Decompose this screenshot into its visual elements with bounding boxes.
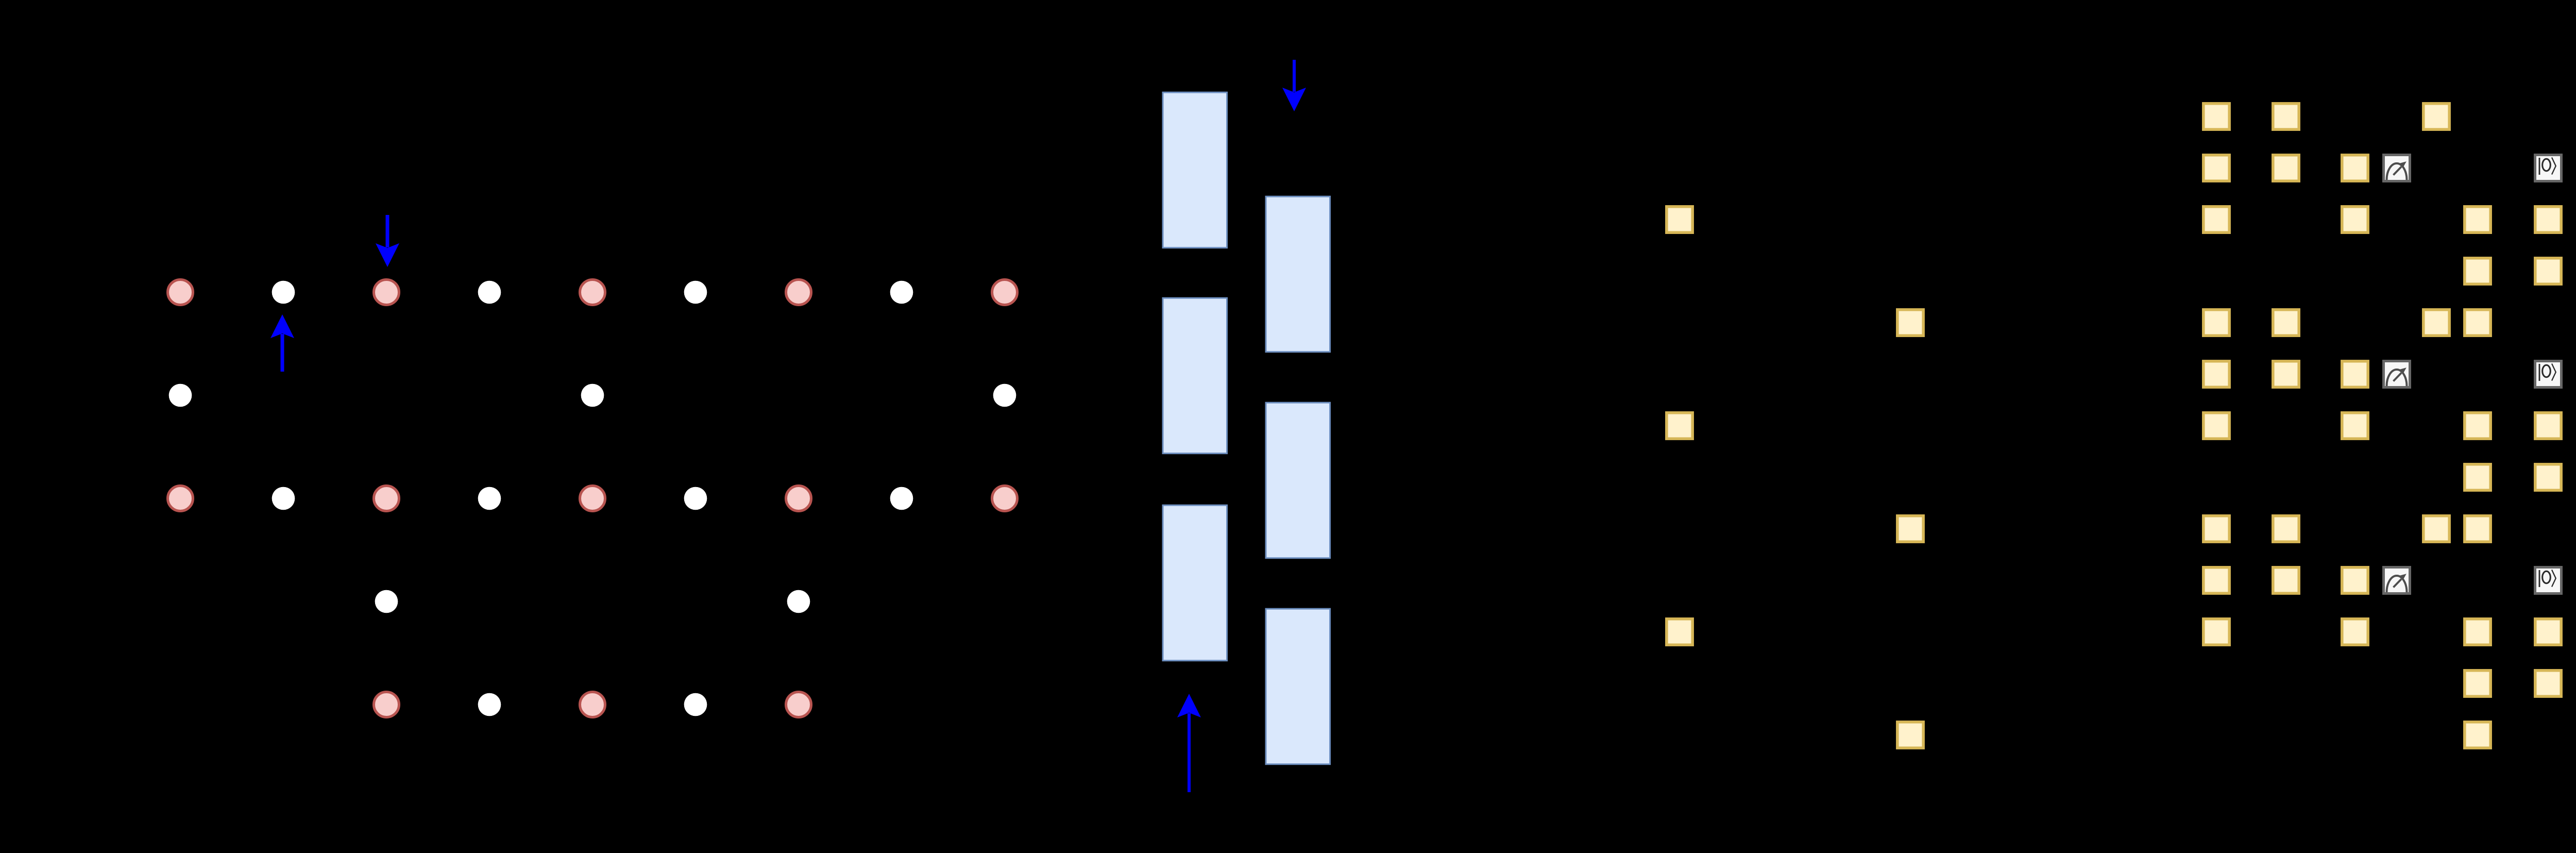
gate square row12 col6 <box>2465 671 2490 696</box>
ancilla qubit A6 (white circle) <box>684 281 707 304</box>
data qubit D21 (pink circle) <box>992 486 1018 511</box>
measurement meter row2 <box>2384 155 2410 181</box>
gate square row10 col2 <box>2273 567 2299 593</box>
measurement meter row10 <box>2384 567 2410 594</box>
reset |0&gt; box row2 <box>2535 155 2562 181</box>
ancilla qubit A4 (white circle) <box>478 281 501 304</box>
gate square row3 col6 <box>2465 207 2490 232</box>
ancilla qubit A16 (white circle) <box>478 487 501 510</box>
two-qubit gate rectangle, left column #1 <box>1163 92 1227 248</box>
gate square row11 col6 <box>2465 619 2490 645</box>
ancilla qubit A27 (white circle) <box>684 693 707 716</box>
two-qubit gate rectangle, right column #3 <box>1266 609 1330 764</box>
gate square row4 col7 <box>2535 258 2561 284</box>
gate square row2 col3 <box>2342 155 2368 181</box>
single-qubit gate square (3262, row11) <box>1667 619 1692 645</box>
reset |0&gt; box row10 <box>2535 567 2562 594</box>
ancilla qubit A2 (white circle) <box>272 281 295 304</box>
gate square row3 col3 <box>2342 207 2368 232</box>
ancilla qubit A22 (white circle) <box>375 590 398 613</box>
gate square row7 col3 <box>2342 413 2368 439</box>
gate square row8 col6 <box>2465 464 2490 490</box>
blue up arrow (middle panel bottom) <box>1177 694 1201 792</box>
two-qubit gate rectangle, left column #3 <box>1163 505 1227 660</box>
single-qubit gate square (3262, row3) <box>1667 207 1692 232</box>
gate square row6 col2 <box>2273 361 2299 387</box>
blue up arrow into lattice (below ancilla) <box>270 314 294 372</box>
single-qubit gate square (3710, row13) <box>1897 722 1923 748</box>
measurement meter row6 <box>2384 361 2410 388</box>
data qubit D7 (pink circle) <box>786 280 811 305</box>
ancilla qubit A25 (white circle) <box>478 693 501 716</box>
ancilla qubit A20 (white circle) <box>890 487 913 510</box>
data qubit D5 (pink circle) <box>580 280 605 305</box>
gate square row5 col2 <box>2273 310 2299 336</box>
data qubit D3 (pink circle) <box>374 280 399 305</box>
gate square row12 col7 <box>2535 671 2561 696</box>
gate square row1 col5 <box>2424 104 2449 129</box>
data qubit D15 (pink circle) <box>374 486 399 511</box>
single-qubit gate square (3710, row5) <box>1897 310 1923 336</box>
ancilla qubit A14 (white circle) <box>272 487 295 510</box>
gate square row5 col1 <box>2204 310 2229 336</box>
single-qubit gate square (3710, row9) <box>1897 516 1923 542</box>
gate square row11 col1 <box>2204 619 2229 645</box>
data qubit D1 (pink circle) <box>168 280 193 305</box>
blue down arrow (middle panel top) <box>1282 60 1306 111</box>
gate square row7 col6 <box>2465 413 2490 439</box>
gate square row9 col5 <box>2424 516 2449 542</box>
gate square row9 col1 <box>2204 516 2229 542</box>
gate square row11 col7 <box>2535 619 2561 645</box>
ancilla qubit A11 (white circle) <box>581 384 604 407</box>
ancilla qubit A8 (white circle) <box>890 281 913 304</box>
gate square row1 col1 <box>2204 104 2229 129</box>
gate square row5 col6 <box>2465 310 2490 336</box>
gate square row9 col2 <box>2273 516 2299 542</box>
gate square row10 col3 <box>2342 567 2368 593</box>
two-qubit gate rectangle, left column #2 <box>1163 298 1227 454</box>
gate square row2 col1 <box>2204 155 2229 181</box>
data qubit D9 (pink circle) <box>992 280 1018 305</box>
gate square row4 col6 <box>2465 258 2490 284</box>
data qubit D13 (pink circle) <box>168 486 193 511</box>
gate square row7 col1 <box>2204 413 2229 439</box>
data qubit D19 (pink circle) <box>786 486 811 511</box>
gate square row9 col6 <box>2465 516 2490 542</box>
gate square row3 col1 <box>2204 207 2229 232</box>
gate square row2 col2 <box>2273 155 2299 181</box>
data qubit D17 (pink circle) <box>580 486 605 511</box>
gate square row10 col1 <box>2204 567 2229 593</box>
gate square row3 col7 <box>2535 207 2561 232</box>
blue down arrow into lattice (top, over data qubit) <box>376 215 399 267</box>
gate square row11 col3 <box>2342 619 2368 645</box>
data qubit D26 (pink circle) <box>580 692 605 717</box>
ancilla qubit A10 (white circle) <box>169 384 192 407</box>
data qubit D28 (pink circle) <box>786 692 811 717</box>
reset |0&gt; box row6 <box>2535 361 2562 388</box>
gate square row13 col6 <box>2465 722 2490 748</box>
ancilla qubit A18 (white circle) <box>684 487 707 510</box>
gate square row5 col5 <box>2424 310 2449 336</box>
ancilla qubit A23 (white circle) <box>787 590 810 613</box>
ancilla qubit A12 (white circle) <box>993 384 1016 407</box>
single-qubit gate square (3262, row7) <box>1667 413 1692 439</box>
gate square row6 col1 <box>2204 361 2229 387</box>
gate square row8 col7 <box>2535 464 2561 490</box>
two-qubit gate rectangle, right column #1 <box>1266 196 1330 352</box>
gate square row1 col2 <box>2273 104 2299 129</box>
gate square row6 col3 <box>2342 361 2368 387</box>
gate square row7 col7 <box>2535 413 2561 439</box>
two-qubit gate rectangle, right column #2 <box>1266 403 1330 558</box>
data qubit D24 (pink circle) <box>374 692 399 717</box>
